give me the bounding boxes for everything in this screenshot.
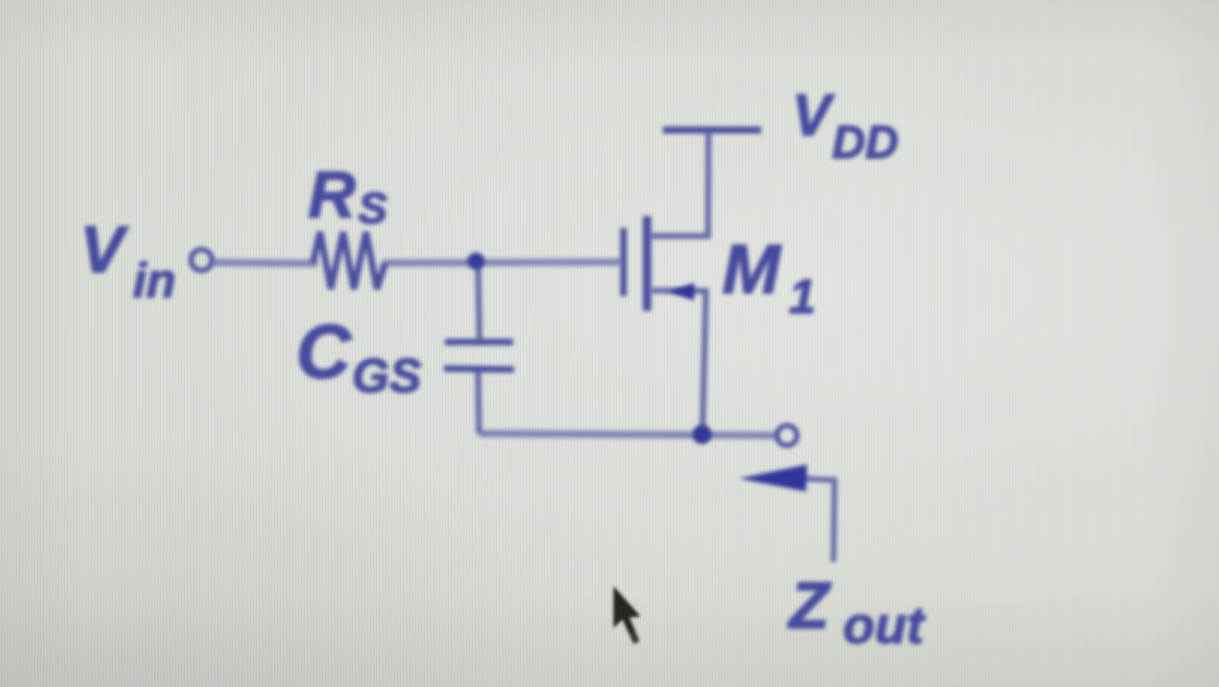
Zout probe elbow xyxy=(800,479,835,563)
resistor RS xyxy=(313,232,385,289)
terminal Vin xyxy=(191,250,212,271)
wire gate xyxy=(383,262,621,263)
capacitor CGS top lead xyxy=(478,262,480,341)
wire bottom xyxy=(479,434,778,436)
Zout probe arrowhead xyxy=(739,465,807,492)
light long wires xyxy=(213,262,778,436)
VDD supply bar xyxy=(663,127,761,134)
capacitor CGS bottom plate xyxy=(444,369,514,370)
transistor M1 channel bar xyxy=(643,216,652,311)
node source junction xyxy=(693,425,712,444)
transistor M1 source vertical xyxy=(651,291,706,432)
dark elements xyxy=(191,130,807,492)
transistor M1 drain leg xyxy=(650,131,709,236)
wire input xyxy=(213,263,317,264)
mouse cursor xyxy=(614,586,641,644)
capacitor CGS top plate xyxy=(445,339,513,346)
transistor M1 source arrow xyxy=(669,283,695,301)
capacitor CGS bottom lead xyxy=(478,369,479,434)
terminal output xyxy=(777,426,797,446)
transistor M1 gate bar xyxy=(620,228,627,296)
mid tone wires xyxy=(478,131,835,562)
node gate junction xyxy=(468,253,485,270)
